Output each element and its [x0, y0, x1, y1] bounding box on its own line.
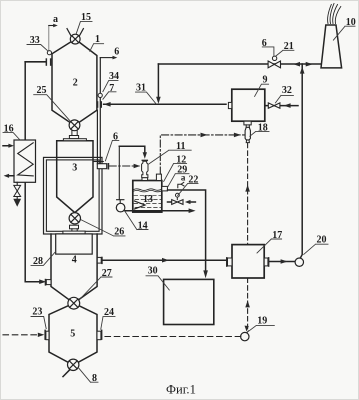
svg-text:4: 4: [72, 254, 77, 265]
svg-text:6: 6: [114, 46, 119, 57]
svg-text:13: 13: [143, 194, 153, 205]
svg-text:17: 17: [272, 230, 282, 241]
svg-text:31: 31: [136, 83, 146, 94]
svg-text:20: 20: [317, 235, 327, 246]
svg-text:22: 22: [188, 174, 198, 185]
svg-text:10: 10: [346, 17, 356, 28]
svg-text:6: 6: [262, 38, 267, 49]
svg-text:14: 14: [138, 220, 148, 231]
svg-text:27: 27: [102, 268, 112, 279]
svg-text:7: 7: [109, 83, 114, 94]
svg-text:9: 9: [263, 75, 268, 86]
svg-text:18: 18: [258, 122, 268, 133]
svg-text:28: 28: [33, 256, 43, 267]
svg-text:а: а: [181, 172, 186, 182]
svg-text:8: 8: [92, 373, 97, 384]
svg-text:3: 3: [72, 162, 77, 173]
svg-text:33: 33: [30, 35, 40, 46]
svg-text:15: 15: [81, 12, 91, 23]
svg-text:a: a: [53, 14, 58, 25]
svg-text:Фиг.1: Фиг.1: [166, 383, 196, 397]
svg-text:19: 19: [257, 315, 267, 326]
svg-text:21: 21: [284, 41, 294, 52]
svg-text:23: 23: [32, 307, 42, 318]
svg-text:1: 1: [95, 34, 100, 45]
svg-text:2: 2: [73, 77, 78, 88]
svg-text:32: 32: [282, 85, 292, 96]
svg-text:24: 24: [104, 307, 114, 318]
svg-text:16: 16: [4, 123, 14, 134]
svg-text:25: 25: [37, 85, 47, 96]
svg-text:5: 5: [70, 328, 75, 339]
svg-text:30: 30: [148, 266, 158, 277]
svg-text:6: 6: [113, 131, 118, 142]
svg-text:34: 34: [109, 71, 119, 82]
svg-text:11: 11: [176, 141, 185, 152]
svg-text:26: 26: [114, 227, 124, 238]
